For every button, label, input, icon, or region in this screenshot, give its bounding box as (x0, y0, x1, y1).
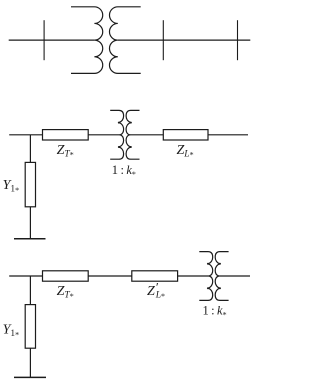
wire (178, 275, 210, 277)
shunt wire down (29, 135, 31, 163)
svg-text:ZT*: ZT* (57, 284, 74, 301)
winding crossover dot (219, 287, 221, 289)
resistor ZT* box (43, 130, 89, 140)
svg-text:1:k*: 1:k* (112, 163, 136, 179)
resistor Z'L* box (132, 271, 178, 281)
resistor Y1* box (25, 305, 35, 349)
transformer T1 right winding (109, 7, 140, 74)
wire (88, 275, 132, 277)
transformer T1 left winding (71, 7, 103, 74)
svg-text:ZT*: ZT* (57, 143, 74, 160)
resistor ZT* box (43, 271, 89, 281)
svg-text:Z′L*: Z′L* (147, 280, 165, 301)
winding crossover dot (207, 263, 209, 265)
wire (208, 134, 248, 136)
ideal transformer left winding (199, 252, 212, 301)
winding crossover dot (207, 287, 209, 289)
wire to ground (29, 348, 31, 377)
bus tick 2 (162, 20, 164, 60)
ideal transformer right winding (215, 252, 228, 301)
wire (219, 275, 250, 277)
winding crossover dot (130, 146, 132, 148)
wire (9, 275, 42, 277)
ideal transformer left winding (110, 110, 123, 159)
bus tick 3 (237, 20, 239, 60)
resistor Y1* box (25, 162, 35, 206)
ground (14, 376, 46, 378)
wire (88, 134, 120, 136)
wire to ground (29, 207, 31, 239)
ground (14, 238, 46, 240)
ideal transformer right winding (126, 110, 139, 159)
winding crossover dot (118, 122, 120, 124)
svg-text:Y1*: Y1* (3, 323, 20, 340)
shunt wire down (29, 276, 31, 305)
winding crossover dot (118, 146, 120, 148)
wire (130, 134, 164, 136)
winding crossover dot (219, 263, 221, 265)
wire right segment (118, 39, 251, 41)
bus tick 1 (43, 20, 45, 60)
svg-text:1:k*: 1:k* (203, 303, 227, 319)
wire left segment (9, 39, 95, 41)
winding crossover dot (130, 122, 132, 124)
svg-text:ZL*: ZL* (177, 143, 194, 160)
svg-text:Y1*: Y1* (3, 178, 20, 195)
resistor ZL* box (163, 130, 208, 140)
wire (9, 134, 42, 136)
